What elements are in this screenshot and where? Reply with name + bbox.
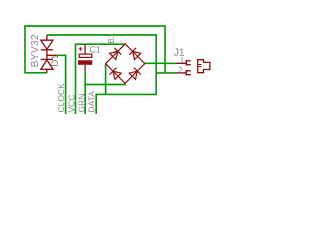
diode D1	[41, 35, 57, 73]
diode TL: left vertex -> top vertex	[109, 48, 121, 60]
wire outer loop D1 bottom to J1 pin2	[25, 26, 165, 73]
wire J1 pin2 line	[156, 72, 176, 74]
wire bridge right vertex to J1 pin1	[145, 62, 176, 64]
wire line3 to bridge apex	[76, 44, 126, 114]
diode BL: bottom vertex -> left vertex	[110, 68, 122, 80]
svg-text:GRN: GRN	[77, 94, 87, 113]
svg-text:B1: B1	[106, 33, 116, 44]
svg-text:DATA: DATA	[87, 91, 97, 113]
wire line1 to bridge bottom vertex	[85, 83, 125, 84]
svg-text:CLOCK: CLOCK	[56, 83, 66, 113]
svg-text:1: 1	[180, 56, 185, 65]
bridge diodes	[109, 48, 141, 80]
wire GRN stub / C1 bottom	[84, 71, 86, 114]
connector J1 pin 1	[176, 60, 191, 65]
svg-text:VCC: VCC	[67, 95, 77, 113]
capacitor C1	[78, 44, 92, 71]
diode TR: right vertex -> top vertex	[129, 48, 141, 60]
connector J1 pin 2	[176, 70, 191, 75]
wire from D1 top to DATA via right side	[47, 35, 156, 114]
bridge rectifier B1	[106, 44, 145, 84]
svg-text:C1: C1	[89, 45, 100, 55]
svg-text:2: 2	[178, 66, 183, 75]
wire bridge left vertex down	[105, 64, 107, 95]
svg-text:BYV32: BYV32	[30, 34, 41, 67]
diode BR: bottom vertex -> right vertex	[129, 68, 141, 80]
svg-text:D1: D1	[50, 54, 61, 66]
connector J1 body	[198, 60, 210, 73]
wire CLOCK stub	[57, 55, 66, 114]
